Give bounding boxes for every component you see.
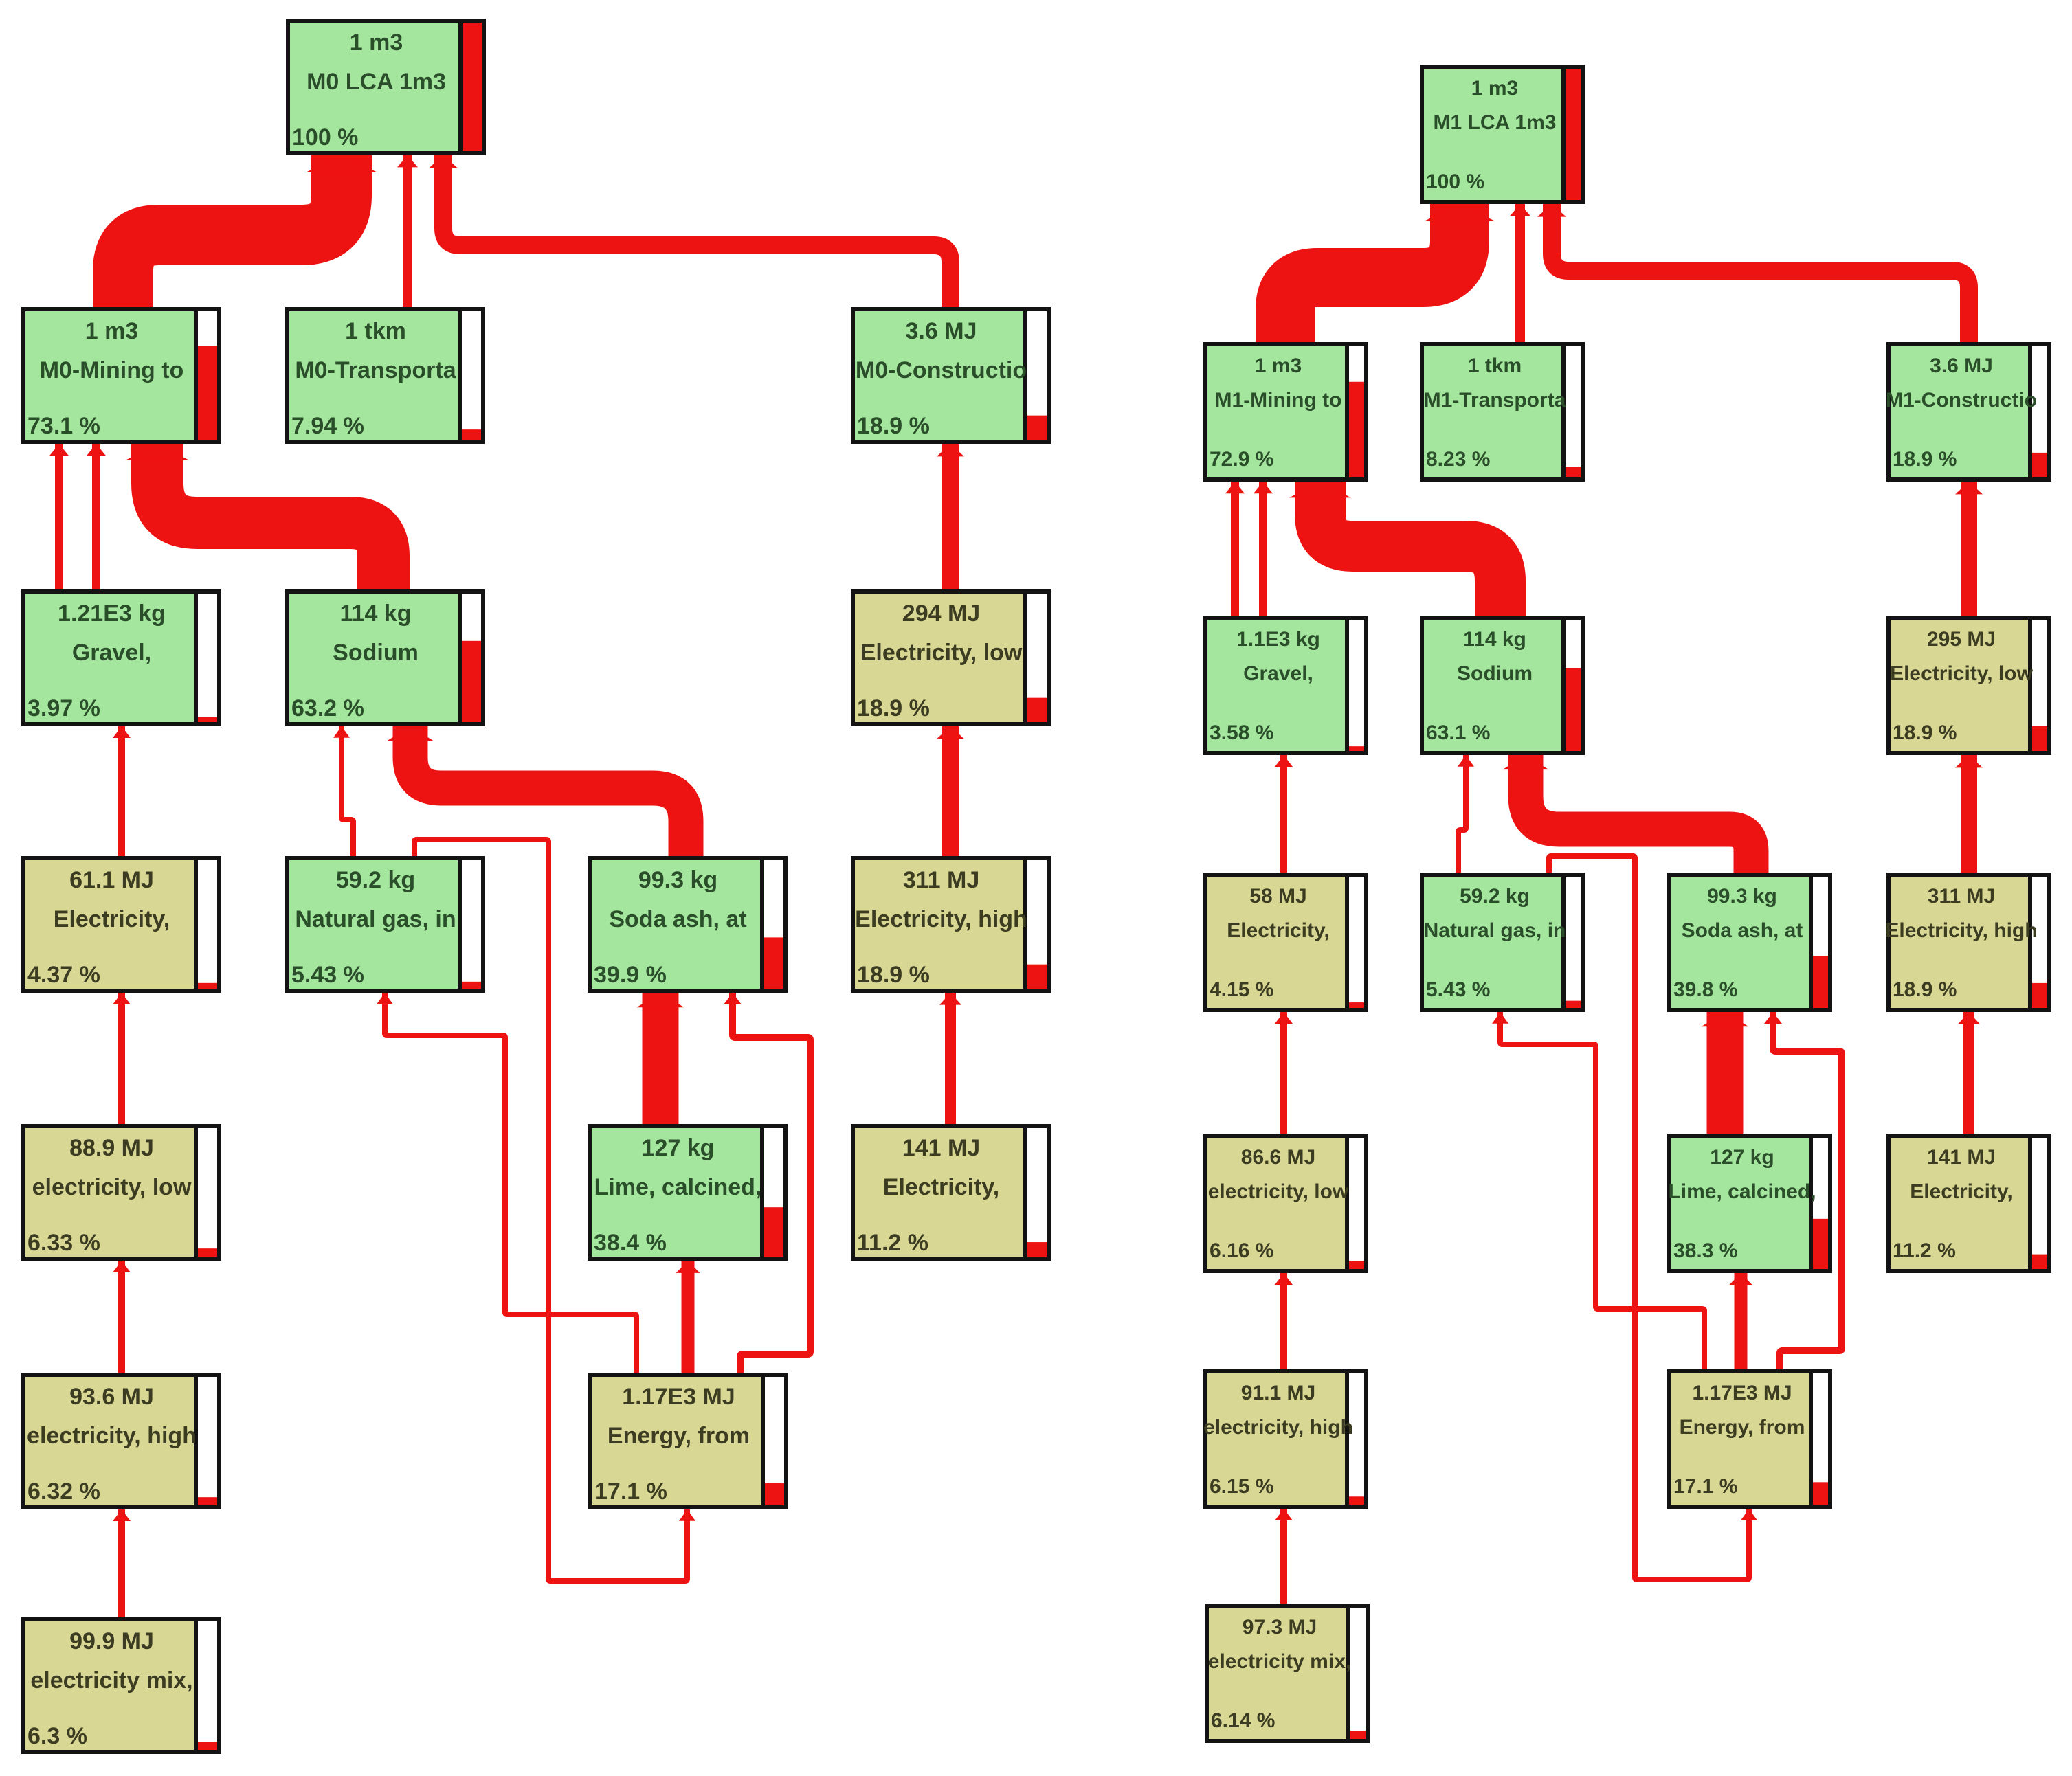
svg-text:Energy, from: Energy, from: [1680, 1416, 1805, 1439]
svg-text:11.2 %: 11.2 %: [1893, 1239, 1956, 1262]
svg-text:3.97 %: 3.97 %: [27, 695, 100, 721]
svg-text:17.1 %: 17.1 %: [1673, 1475, 1737, 1498]
svg-text:100 %: 100 %: [1426, 170, 1484, 193]
svg-text:18.9 %: 18.9 %: [1893, 721, 1957, 744]
svg-text:72.9 %: 72.9 %: [1210, 448, 1273, 471]
svg-text:11.2 %: 11.2 %: [857, 1230, 928, 1256]
svg-text:59.2 kg: 59.2 kg: [1460, 885, 1530, 908]
svg-text:18.9 %: 18.9 %: [857, 695, 930, 721]
svg-text:4.37 %: 4.37 %: [27, 962, 100, 988]
svg-text:39.8 %: 39.8 %: [1673, 978, 1737, 1001]
svg-text:Electricity,: Electricity,: [1910, 1180, 2013, 1203]
svg-text:1 m3: 1 m3: [85, 318, 139, 344]
svg-text:Sodium: Sodium: [333, 640, 419, 666]
svg-text:Electricity, high: Electricity, high: [855, 906, 1027, 932]
svg-text:127 kg: 127 kg: [1710, 1146, 1774, 1169]
svg-text:93.6 MJ: 93.6 MJ: [69, 1384, 154, 1410]
svg-text:295 MJ: 295 MJ: [1927, 628, 1996, 651]
svg-text:1 m3: 1 m3: [1255, 355, 1302, 377]
svg-text:electricity mix,: electricity mix,: [1208, 1650, 1351, 1673]
svg-text:63.2 %: 63.2 %: [291, 695, 364, 721]
svg-text:M1-Constructio: M1-Constructio: [1886, 389, 2037, 412]
svg-text:38.4 %: 38.4 %: [594, 1230, 667, 1256]
svg-text:61.1 MJ: 61.1 MJ: [69, 867, 154, 893]
svg-text:99.3 kg: 99.3 kg: [1707, 885, 1777, 908]
svg-text:18.9 %: 18.9 %: [857, 413, 930, 439]
svg-text:6.15 %: 6.15 %: [1210, 1475, 1273, 1498]
svg-text:M0-Mining to: M0-Mining to: [40, 357, 184, 383]
svg-text:Gravel,: Gravel,: [1243, 662, 1313, 685]
svg-text:1.17E3 MJ: 1.17E3 MJ: [622, 1384, 735, 1410]
svg-text:Electricity,: Electricity,: [1227, 919, 1330, 942]
svg-text:Energy, from: Energy, from: [608, 1423, 750, 1449]
svg-text:6.14 %: 6.14 %: [1211, 1709, 1275, 1732]
svg-text:86.6 MJ: 86.6 MJ: [1241, 1146, 1315, 1169]
svg-text:88.9 MJ: 88.9 MJ: [69, 1135, 154, 1161]
svg-text:M1-Mining to: M1-Mining to: [1215, 389, 1342, 412]
svg-text:99.9 MJ: 99.9 MJ: [69, 1628, 154, 1654]
svg-text:Lime, calcined,: Lime, calcined,: [594, 1174, 762, 1200]
svg-text:114 kg: 114 kg: [340, 600, 412, 627]
svg-text:3.6 MJ: 3.6 MJ: [1930, 355, 1993, 377]
svg-text:electricity, high: electricity, high: [27, 1423, 197, 1449]
svg-text:18.9 %: 18.9 %: [857, 962, 930, 988]
svg-text:38.3 %: 38.3 %: [1673, 1239, 1737, 1262]
svg-text:91.1 MJ: 91.1 MJ: [1241, 1382, 1315, 1404]
svg-text:39.9 %: 39.9 %: [594, 962, 667, 988]
svg-text:18.9 %: 18.9 %: [1893, 978, 1957, 1001]
svg-text:6.3 %: 6.3 %: [27, 1723, 87, 1749]
svg-text:1.17E3 MJ: 1.17E3 MJ: [1692, 1382, 1792, 1404]
svg-text:141 MJ: 141 MJ: [902, 1135, 980, 1161]
svg-text:electricity, low: electricity, low: [32, 1174, 192, 1200]
svg-text:Natural gas, in: Natural gas, in: [1424, 919, 1566, 942]
svg-text:Soda ash, at: Soda ash, at: [1682, 919, 1803, 942]
svg-text:17.1 %: 17.1 %: [594, 1479, 667, 1505]
svg-text:Sodium: Sodium: [1457, 662, 1533, 685]
svg-text:4.15 %: 4.15 %: [1210, 978, 1273, 1001]
svg-text:127 kg: 127 kg: [642, 1135, 715, 1161]
svg-text:Electricity,: Electricity,: [54, 906, 170, 932]
svg-text:5.43 %: 5.43 %: [291, 962, 364, 988]
svg-text:Electricity, low: Electricity, low: [1890, 662, 2034, 685]
svg-text:1.1E3 kg: 1.1E3 kg: [1236, 628, 1320, 651]
svg-text:3.58 %: 3.58 %: [1210, 721, 1273, 744]
svg-text:58 MJ: 58 MJ: [1249, 885, 1306, 908]
svg-text:311 MJ: 311 MJ: [903, 867, 980, 893]
svg-text:electricity, high: electricity, high: [1203, 1416, 1353, 1439]
svg-text:5.43 %: 5.43 %: [1426, 978, 1490, 1001]
svg-text:6.32 %: 6.32 %: [27, 1479, 100, 1505]
svg-text:M0-Constructio: M0-Constructio: [856, 357, 1027, 383]
svg-text:M1 LCA 1m3: M1 LCA 1m3: [1434, 111, 1557, 134]
svg-text:1 m3: 1 m3: [350, 30, 403, 56]
svg-text:63.1 %: 63.1 %: [1426, 721, 1490, 744]
svg-text:M0 LCA 1m3: M0 LCA 1m3: [307, 69, 446, 95]
svg-text:6.33 %: 6.33 %: [27, 1230, 100, 1256]
svg-text:18.9 %: 18.9 %: [1893, 448, 1957, 471]
svg-text:8.23 %: 8.23 %: [1426, 448, 1490, 471]
svg-text:100 %: 100 %: [292, 124, 358, 150]
svg-text:Gravel,: Gravel,: [72, 640, 151, 666]
svg-text:Lime, calcined,: Lime, calcined,: [1668, 1180, 1816, 1203]
svg-text:1 tkm: 1 tkm: [345, 318, 406, 344]
svg-text:M1-Transporta: M1-Transporta: [1424, 389, 1566, 412]
svg-text:7.94 %: 7.94 %: [291, 413, 364, 439]
svg-text:97.3 MJ: 97.3 MJ: [1243, 1616, 1317, 1639]
svg-text:3.6 MJ: 3.6 MJ: [906, 318, 977, 344]
svg-text:114 kg: 114 kg: [1463, 628, 1526, 651]
svg-text:Soda ash, at: Soda ash, at: [609, 906, 746, 932]
svg-text:M0-Transporta: M0-Transporta: [295, 357, 456, 383]
svg-text:Natural gas, in: Natural gas, in: [295, 906, 456, 932]
svg-text:73.1 %: 73.1 %: [27, 413, 100, 439]
svg-text:Electricity, high: Electricity, high: [1885, 919, 2037, 942]
svg-text:1 m3: 1 m3: [1471, 77, 1518, 100]
svg-text:6.16 %: 6.16 %: [1210, 1239, 1273, 1262]
svg-text:1 tkm: 1 tkm: [1468, 355, 1522, 377]
svg-text:294 MJ: 294 MJ: [902, 600, 980, 627]
svg-text:Electricity, low: Electricity, low: [860, 640, 1023, 666]
svg-text:311 MJ: 311 MJ: [1928, 885, 1995, 908]
svg-text:electricity mix,: electricity mix,: [30, 1667, 192, 1694]
svg-text:electricity, low: electricity, low: [1208, 1180, 1349, 1203]
svg-text:99.3 kg: 99.3 kg: [638, 867, 717, 893]
svg-text:Electricity,: Electricity,: [883, 1174, 999, 1200]
svg-text:59.2 kg: 59.2 kg: [336, 867, 415, 893]
svg-text:141 MJ: 141 MJ: [1927, 1146, 1996, 1169]
svg-text:1.21E3 kg: 1.21E3 kg: [58, 600, 166, 627]
